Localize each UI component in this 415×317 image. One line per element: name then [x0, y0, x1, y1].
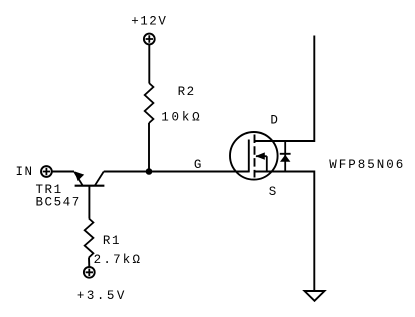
svg-text:WFP85N06: WFP85N06	[329, 158, 405, 172]
svg-text:10kΩ: 10kΩ	[161, 111, 201, 125]
svg-text:+12V: +12V	[131, 15, 167, 29]
svg-text:+3.5V: +3.5V	[77, 289, 126, 303]
body arrow	[256, 155, 267, 157]
terminal IN	[41, 166, 52, 177]
wire +12V terminal to R2	[148, 45, 150, 83]
power terminal +3.5V	[84, 267, 95, 278]
svg-text:IN: IN	[16, 165, 34, 179]
svg-text:R2: R2	[178, 85, 196, 99]
wire R2 to junction	[148, 123, 150, 172]
svg-text:S: S	[269, 185, 278, 199]
body circle	[230, 132, 278, 180]
mosfet U1 WFP85N06	[230, 132, 291, 180]
ground	[305, 291, 325, 301]
channel (dashed)	[254, 135, 256, 178]
gate bar	[248, 140, 250, 173]
svg-text:G: G	[194, 158, 203, 172]
node junction (R2 / collector / gate)	[146, 168, 153, 175]
body diode	[284, 141, 286, 172]
svg-text:2.7kΩ: 2.7kΩ	[94, 253, 142, 267]
resistor R2	[145, 83, 154, 123]
wire source to ground rail	[255, 172, 315, 292]
svg-text:BC547: BC547	[36, 196, 81, 210]
svg-text:R1: R1	[103, 234, 121, 248]
transistor TR1	[74, 171, 104, 218]
wire R1 to +3.5V terminal	[88, 258, 90, 268]
wire drain to top rail	[255, 36, 315, 142]
wire collector to gate	[104, 171, 249, 173]
power terminal +12V	[144, 34, 155, 45]
collector	[95, 172, 104, 186]
resistor R1	[85, 219, 94, 258]
svg-text:D: D	[270, 113, 279, 127]
base lead	[88, 186, 90, 219]
emitter with arrow	[74, 172, 83, 186]
wire IN to emitter	[52, 171, 74, 173]
base bar	[75, 185, 105, 187]
